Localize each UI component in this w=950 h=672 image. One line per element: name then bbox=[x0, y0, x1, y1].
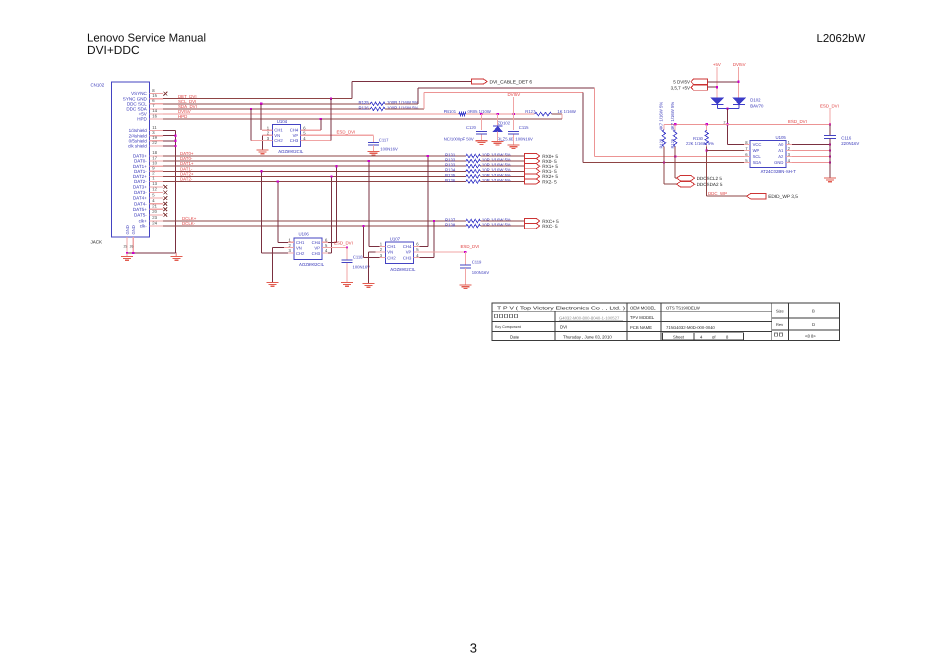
wire tap DAT2+ to U106 CH3 bbox=[331, 176, 333, 253]
svg-text:Date: Date bbox=[510, 334, 520, 339]
svg-text:100N16V: 100N16V bbox=[515, 137, 533, 142]
svg-text:16: 16 bbox=[152, 113, 157, 118]
wire port to DVI5V bbox=[707, 81, 738, 83]
wire D102 common cathode bbox=[716, 104, 718, 108]
svg-text:DVI5V: DVI5V bbox=[733, 62, 746, 67]
svg-text:13: 13 bbox=[152, 181, 157, 186]
title block Sheet row bbox=[663, 333, 744, 340]
svg-text:22K 1/16W 5%: 22K 1/16W 5% bbox=[686, 141, 714, 146]
title block bottom-right cell bbox=[775, 333, 778, 336]
svg-text:OTS TS190DELW: OTS TS190DELW bbox=[666, 305, 700, 310]
svg-text:NC/1000pF 50V: NC/1000pF 50V bbox=[444, 136, 474, 141]
svg-text:ESD_DVI: ESD_DVI bbox=[337, 129, 356, 134]
IC U105 EEPROM AT24C02BN-SH-T bbox=[750, 141, 786, 168]
svg-text:HPD: HPD bbox=[178, 114, 187, 119]
wires U105 right pins to ground column bbox=[792, 144, 830, 146]
svg-text:10R 1/16W 5%: 10R 1/16W 5% bbox=[482, 223, 511, 228]
svg-text:TPV MODEL: TPV MODEL bbox=[630, 315, 655, 320]
svg-text:ESD_DVI: ESD_DVI bbox=[820, 104, 839, 109]
wire SCL_DVI to EEPROM (upper run) bbox=[385, 103, 418, 105]
wire C116 to ground bbox=[829, 139, 831, 178]
svg-text:DDCSDA2 5: DDCSDA2 5 bbox=[697, 182, 723, 187]
CN103 shell pin stubs to ground rail bbox=[126, 237, 128, 253]
wire ESD_DVI rail (EEPROM VCC) bbox=[664, 123, 830, 125]
svg-text:C119: C119 bbox=[472, 259, 482, 264]
svg-text:RX2- 5: RX2- 5 bbox=[542, 179, 557, 184]
svg-text:OEM MODEL: OEM MODEL bbox=[630, 305, 656, 310]
svg-text:HPD: HPD bbox=[137, 117, 147, 122]
svg-text:ESD_DVI: ESD_DVI bbox=[334, 241, 353, 246]
ground below U107 bbox=[363, 283, 375, 285]
svg-text:clk-: clk- bbox=[140, 224, 148, 229]
svg-text:DAT4-: DAT4- bbox=[134, 201, 147, 206]
svg-text:U106: U106 bbox=[299, 232, 310, 237]
ground below C117 bbox=[373, 145, 375, 151]
wire DCLK- bbox=[163, 225, 466, 227]
wire DAT2+ bbox=[163, 175, 466, 177]
svg-text:VN: VN bbox=[387, 250, 393, 255]
capacitor C116 bbox=[829, 124, 831, 135]
svg-text:VP: VP bbox=[314, 246, 320, 251]
svg-text:AT24C02BN-SH-T: AT24C02BN-SH-T bbox=[761, 169, 797, 174]
svg-text:C116: C116 bbox=[841, 135, 852, 140]
svg-text:WP: WP bbox=[753, 148, 760, 153]
ground below U106 bbox=[267, 282, 279, 284]
svg-text:DAT5-: DAT5- bbox=[134, 213, 147, 218]
svg-text:C120: C120 bbox=[466, 125, 477, 130]
svg-text:21: 21 bbox=[152, 204, 157, 209]
svg-text:R127: R127 bbox=[525, 109, 536, 114]
svg-text:Rev: Rev bbox=[776, 322, 783, 327]
wire DDC_WP to port bbox=[707, 195, 747, 197]
op-amp U104 (ESD protection AOZ8902CIL) bbox=[272, 124, 300, 146]
svg-text:A0: A0 bbox=[778, 142, 784, 147]
svg-text:L2062bW: L2062bW bbox=[817, 33, 866, 45]
svg-text:SCL: SCL bbox=[753, 154, 762, 159]
svg-text:A2: A2 bbox=[778, 154, 784, 159]
ground below U104 bbox=[257, 149, 269, 151]
svg-text:100N16V: 100N16V bbox=[353, 264, 371, 269]
wire DAT2- bbox=[163, 181, 466, 183]
op-amp U107 (ESD protection AOZ8902CIL) bbox=[385, 242, 413, 263]
wire DAT1+ bbox=[163, 165, 466, 167]
svg-text:CH2: CH2 bbox=[274, 138, 283, 143]
svg-text:Sheet: Sheet bbox=[673, 334, 685, 339]
svg-text:U107: U107 bbox=[390, 237, 401, 242]
svg-text:CN102: CN102 bbox=[91, 83, 105, 88]
port RXC- bbox=[525, 224, 540, 229]
svg-text:DVI_CABLE_DET 6: DVI_CABLE_DET 6 bbox=[490, 79, 533, 85]
port EDID_WP (output, left point) bbox=[747, 194, 767, 199]
svg-text:<8 8>: <8 8> bbox=[805, 333, 816, 338]
svg-text:C117: C117 bbox=[379, 138, 389, 143]
svg-text:CH2: CH2 bbox=[387, 255, 396, 260]
U106 VN to ground bbox=[273, 247, 284, 249]
svg-text:RXC- 5: RXC- 5 bbox=[542, 224, 558, 229]
svg-text:AOZ8902CIL: AOZ8902CIL bbox=[390, 267, 416, 272]
svg-text:AOZ8902CIL: AOZ8902CIL bbox=[278, 149, 304, 154]
port RX1+ bbox=[525, 164, 540, 169]
capacitor C119 bbox=[464, 251, 466, 253]
port RXC+ bbox=[525, 218, 540, 223]
svg-text:DAT5+: DAT5+ bbox=[133, 207, 147, 212]
svg-text:Thursday , June 03, 2010: Thursday , June 03, 2010 bbox=[563, 334, 612, 339]
ground below C116 / U105 bbox=[824, 177, 836, 179]
ESD_DVI stub above C116 bbox=[829, 109, 831, 124]
svg-text:20: 20 bbox=[152, 209, 157, 214]
svg-text:DCLK-: DCLK- bbox=[182, 221, 196, 226]
wire U105 WP from R130 bbox=[707, 150, 744, 152]
title block grid lines bbox=[626, 303, 628, 341]
title block outer frame bbox=[492, 303, 840, 341]
wire HPD bbox=[163, 118, 562, 120]
ground below C119 bbox=[464, 268, 466, 284]
port RX2- bbox=[525, 179, 540, 184]
wire tap DAT1- to U106 CH2 bbox=[261, 171, 263, 253]
svg-text:D102: D102 bbox=[750, 97, 761, 102]
svg-text:A1: A1 bbox=[778, 148, 784, 153]
ground below C118 bbox=[346, 263, 348, 282]
svg-text:RLZ5.6B: RLZ5.6B bbox=[497, 137, 514, 142]
wire DAT1- bbox=[163, 170, 466, 172]
svg-text:715G4032-M0D-000-0040: 715G4032-M0D-000-0040 bbox=[666, 325, 716, 330]
svg-text:AOZ8902CIL: AOZ8902CIL bbox=[299, 262, 325, 267]
svg-text:DDCSCL2 5: DDCSCL2 5 bbox=[697, 176, 723, 181]
svg-text:10R 1/16W 5%: 10R 1/16W 5% bbox=[482, 178, 511, 183]
svg-text:Size: Size bbox=[776, 308, 785, 313]
svg-text:T P V ( Top Victory Elec: T P V ( Top Victory Electronics Co . , L… bbox=[497, 305, 626, 310]
wire tap DAT0+ to U107 CH4 bbox=[427, 156, 429, 246]
svg-text:26: 26 bbox=[130, 245, 134, 249]
svg-text:5 DVI5V: 5 DVI5V bbox=[673, 80, 690, 85]
capacitor C117 bbox=[373, 135, 375, 142]
wire DCLK+ bbox=[163, 220, 466, 222]
svg-text:0R05 1/10W: 0R05 1/10W bbox=[468, 109, 491, 114]
svg-text:DDC_WP: DDC_WP bbox=[708, 191, 727, 196]
capacitor C115 bbox=[513, 114, 515, 130]
svg-text:24: 24 bbox=[152, 220, 157, 225]
svg-text:12: 12 bbox=[152, 187, 157, 192]
svg-text:100R 1/16W 5%: 100R 1/16W 5% bbox=[387, 105, 418, 110]
svg-text:CH1: CH1 bbox=[296, 240, 305, 245]
svg-text:100N16V: 100N16V bbox=[472, 270, 490, 275]
ground symbol below CN103 shell bbox=[126, 253, 128, 256]
svg-text:CH4: CH4 bbox=[403, 244, 412, 249]
svg-text:clk shield: clk shield bbox=[128, 144, 147, 149]
svg-text:VP: VP bbox=[406, 250, 412, 255]
ground symbol for shield bus bbox=[175, 253, 177, 256]
svg-text:4K7 1/16W 5%: 4K7 1/16W 5% bbox=[659, 102, 664, 131]
capacitor C120 bbox=[480, 114, 482, 130]
wire DVI5V rail bbox=[163, 113, 459, 115]
port DVI_CABLE_DET bbox=[472, 79, 488, 84]
svg-text:PCB NAME: PCB NAME bbox=[630, 325, 652, 330]
svg-text:ESD_DVI: ESD_DVI bbox=[461, 244, 480, 249]
svg-text:JACK: JACK bbox=[91, 240, 103, 245]
port RX0- bbox=[525, 159, 540, 164]
wire shield bus bbox=[163, 130, 175, 132]
svg-text:DAT4+: DAT4+ bbox=[133, 196, 147, 201]
svg-text:FB101: FB101 bbox=[444, 109, 457, 114]
wire DAT0- bbox=[163, 160, 466, 162]
wire tap DCLK+ to U107 CH3 bbox=[433, 221, 435, 258]
connector CN102 body bbox=[112, 82, 150, 237]
svg-text:B: B bbox=[812, 308, 815, 313]
svg-text:DVI+DDC: DVI+DDC bbox=[87, 43, 140, 57]
svg-text:U105: U105 bbox=[776, 135, 787, 140]
svg-text:G4032-M00-800-8040-1-100527: G4032-M00-800-8040-1-100527 bbox=[559, 315, 620, 320]
svg-text:+5V: +5V bbox=[713, 62, 721, 67]
wire R127 to HPD bbox=[552, 113, 563, 115]
svg-text:CH1: CH1 bbox=[387, 244, 396, 249]
svg-text:22: 22 bbox=[152, 140, 157, 145]
port RX0+ bbox=[525, 153, 540, 158]
svg-text:DAT2-: DAT2- bbox=[180, 177, 193, 182]
diode D102 BAV70 (dual) bbox=[711, 98, 723, 104]
ground below C115 bbox=[513, 134, 515, 144]
wire SCL_DVI bbox=[163, 103, 370, 105]
svg-text:3,5,7 +5V: 3,5,7 +5V bbox=[671, 85, 690, 90]
svg-text:BAV70: BAV70 bbox=[750, 103, 764, 108]
svg-text:CH3: CH3 bbox=[403, 255, 412, 260]
U107 VN to ground bbox=[369, 251, 376, 253]
svg-text:3: 3 bbox=[470, 641, 477, 656]
svg-text:CH3: CH3 bbox=[290, 138, 299, 143]
wire tap DCLK- to U107 CH2... CH2 bbox=[363, 226, 365, 258]
svg-text:VCC: VCC bbox=[753, 142, 762, 147]
op-amp U106 (ESD protection AOZ8902CIL) bbox=[294, 238, 322, 260]
wire R130 bottom / DDC_WP bbox=[706, 146, 708, 196]
svg-text:100N16V: 100N16V bbox=[380, 147, 398, 152]
capacitor C118 bbox=[346, 247, 348, 249]
svg-text:D: D bbox=[812, 322, 815, 327]
svg-text:DAT3+: DAT3+ bbox=[133, 185, 147, 190]
wire DVI5V rail after FB101 bbox=[466, 113, 535, 115]
svg-text:25: 25 bbox=[124, 245, 128, 249]
wire DET_DVI bbox=[163, 98, 352, 100]
wire R128 bottom to DDCSDA2 bbox=[663, 146, 665, 184]
wire tap DAT2- to U106 CH1 bbox=[277, 182, 279, 243]
svg-text:EDID_WP 3,5: EDID_WP 3,5 bbox=[768, 194, 798, 200]
svg-text:C115: C115 bbox=[519, 125, 529, 130]
svg-text:GND: GND bbox=[131, 225, 136, 234]
port RX1- bbox=[525, 169, 540, 174]
svg-text:CH2: CH2 bbox=[296, 251, 305, 256]
port DDCSDA2 (bidirectional) bbox=[677, 181, 695, 187]
svg-text:R136: R136 bbox=[445, 178, 456, 183]
svg-text:GND: GND bbox=[774, 160, 783, 165]
wire tap DAT0- to U107 CH1 bbox=[368, 161, 370, 246]
svg-text:Key Component: Key Component bbox=[495, 325, 521, 329]
svg-text:1K 1/16W: 1K 1/16W bbox=[557, 109, 575, 114]
svg-text:DAT3-: DAT3- bbox=[134, 190, 147, 195]
svg-text:DVI5V: DVI5V bbox=[508, 92, 521, 97]
wire tap DAT1+ to U106 CH4 bbox=[336, 166, 338, 242]
svg-text:GND: GND bbox=[125, 225, 130, 234]
port DDCSCL2 (bidirectional) bbox=[677, 175, 695, 181]
ground below ZD102 bbox=[497, 131, 499, 141]
svg-text:VN: VN bbox=[296, 246, 302, 251]
svg-text:C118: C118 bbox=[353, 255, 363, 260]
svg-text:R126: R126 bbox=[359, 105, 370, 110]
svg-text:U104: U104 bbox=[277, 119, 288, 124]
wire R129 bottom to DDCSCL2 bbox=[674, 146, 676, 178]
svg-text:SDA: SDA bbox=[753, 160, 762, 165]
wire DET_DVI branch to cable-detect port bbox=[351, 82, 353, 99]
title block drawing-number row bbox=[495, 314, 498, 317]
ground rail below connector bbox=[127, 252, 176, 254]
svg-text:ESD_DVI: ESD_DVI bbox=[788, 119, 807, 124]
svg-text:CH3: CH3 bbox=[312, 251, 321, 256]
svg-text:CH4: CH4 bbox=[312, 240, 321, 245]
svg-text:DAT2-: DAT2- bbox=[134, 179, 147, 184]
svg-text:DVI: DVI bbox=[560, 324, 567, 329]
wire port to +5V bbox=[707, 86, 717, 88]
svg-text:ZD102: ZD102 bbox=[498, 121, 511, 126]
wire SDA_DVI bbox=[163, 108, 370, 110]
wire U105 VCC from D102 bbox=[728, 144, 744, 146]
svg-text:220N16V: 220N16V bbox=[841, 141, 859, 146]
svg-text:R138: R138 bbox=[445, 223, 456, 228]
port RX2+ bbox=[525, 174, 540, 179]
ground below C120 bbox=[480, 134, 482, 140]
wire DAT0+ bbox=[163, 155, 466, 157]
svg-text:4K7 1/16W 5%: 4K7 1/16W 5% bbox=[670, 102, 675, 131]
wire SDA_DVI to EEPROM (lower run) bbox=[385, 108, 424, 110]
